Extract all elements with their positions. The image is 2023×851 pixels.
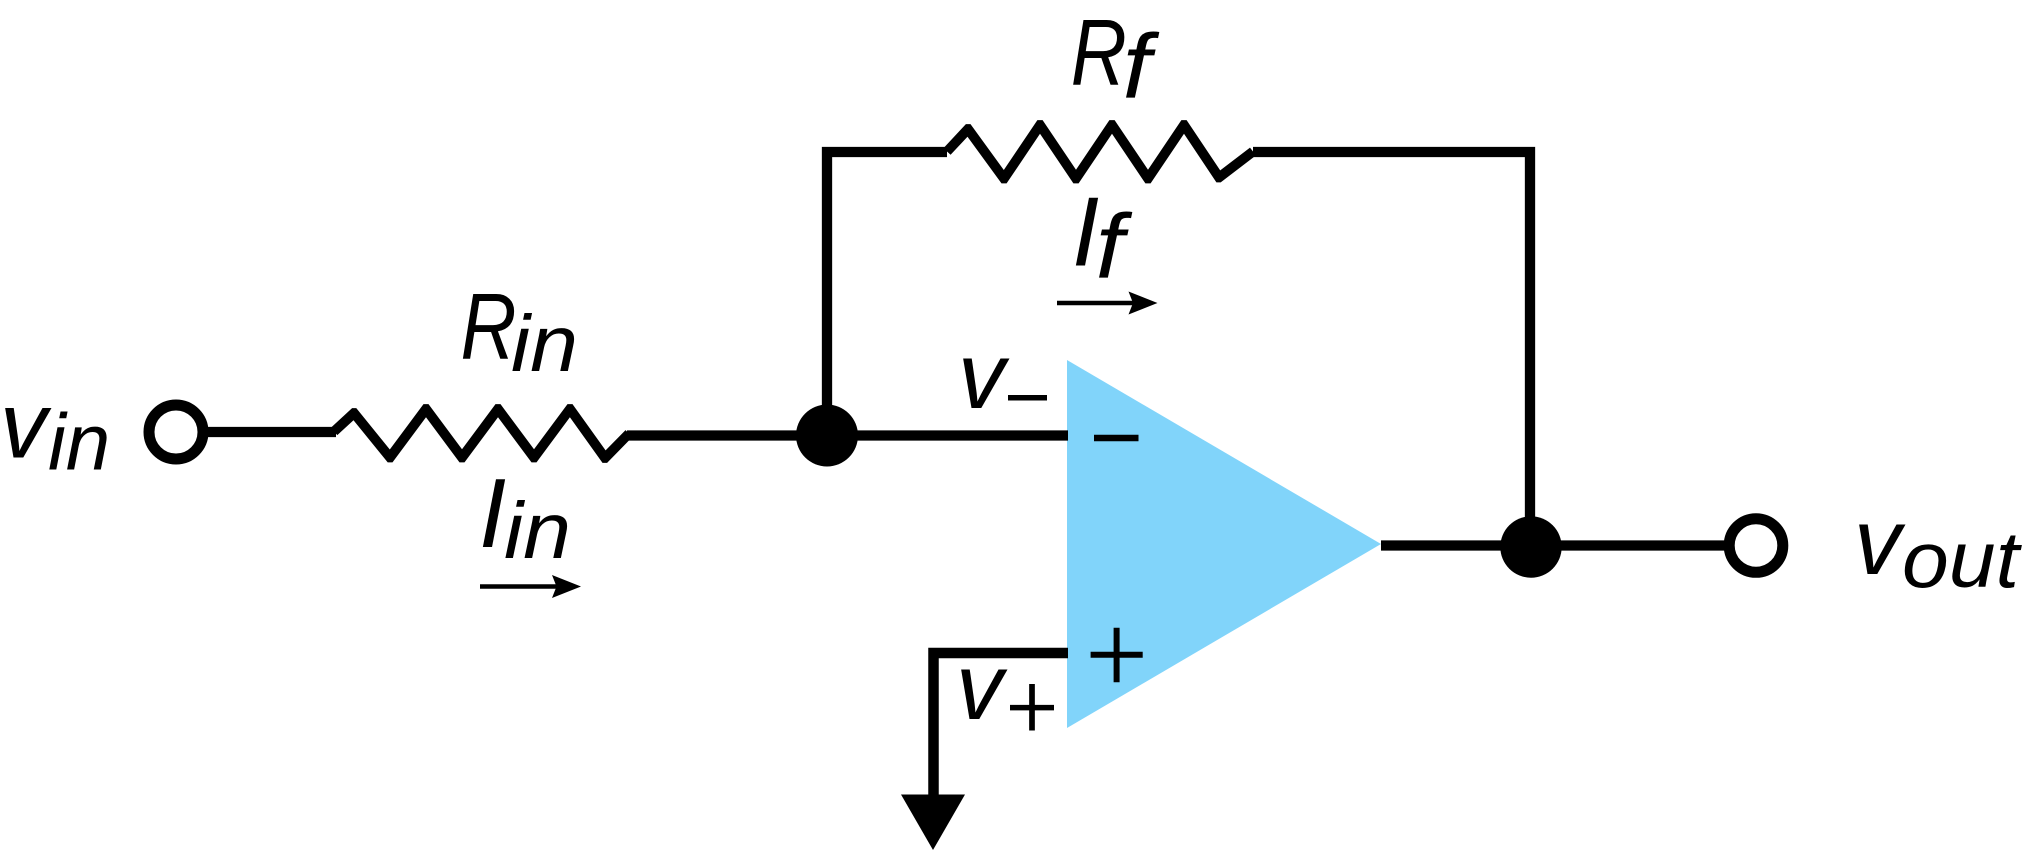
svg-text:in: in bbox=[511, 299, 578, 388]
svg-text:v: v bbox=[0, 373, 52, 478]
svg-text:R: R bbox=[461, 274, 517, 379]
svg-text:v: v bbox=[956, 634, 1008, 739]
svg-text:f: f bbox=[1123, 17, 1161, 118]
svg-text:f: f bbox=[1096, 197, 1134, 298]
svg-text:I: I bbox=[479, 458, 506, 568]
svg-text:out: out bbox=[1902, 515, 2022, 604]
svg-text:v: v bbox=[1854, 489, 1906, 594]
svg-text:in: in bbox=[504, 486, 571, 575]
svg-text:in: in bbox=[48, 398, 110, 487]
svg-text:R: R bbox=[1071, 0, 1127, 105]
svg-text:v: v bbox=[958, 323, 1010, 428]
